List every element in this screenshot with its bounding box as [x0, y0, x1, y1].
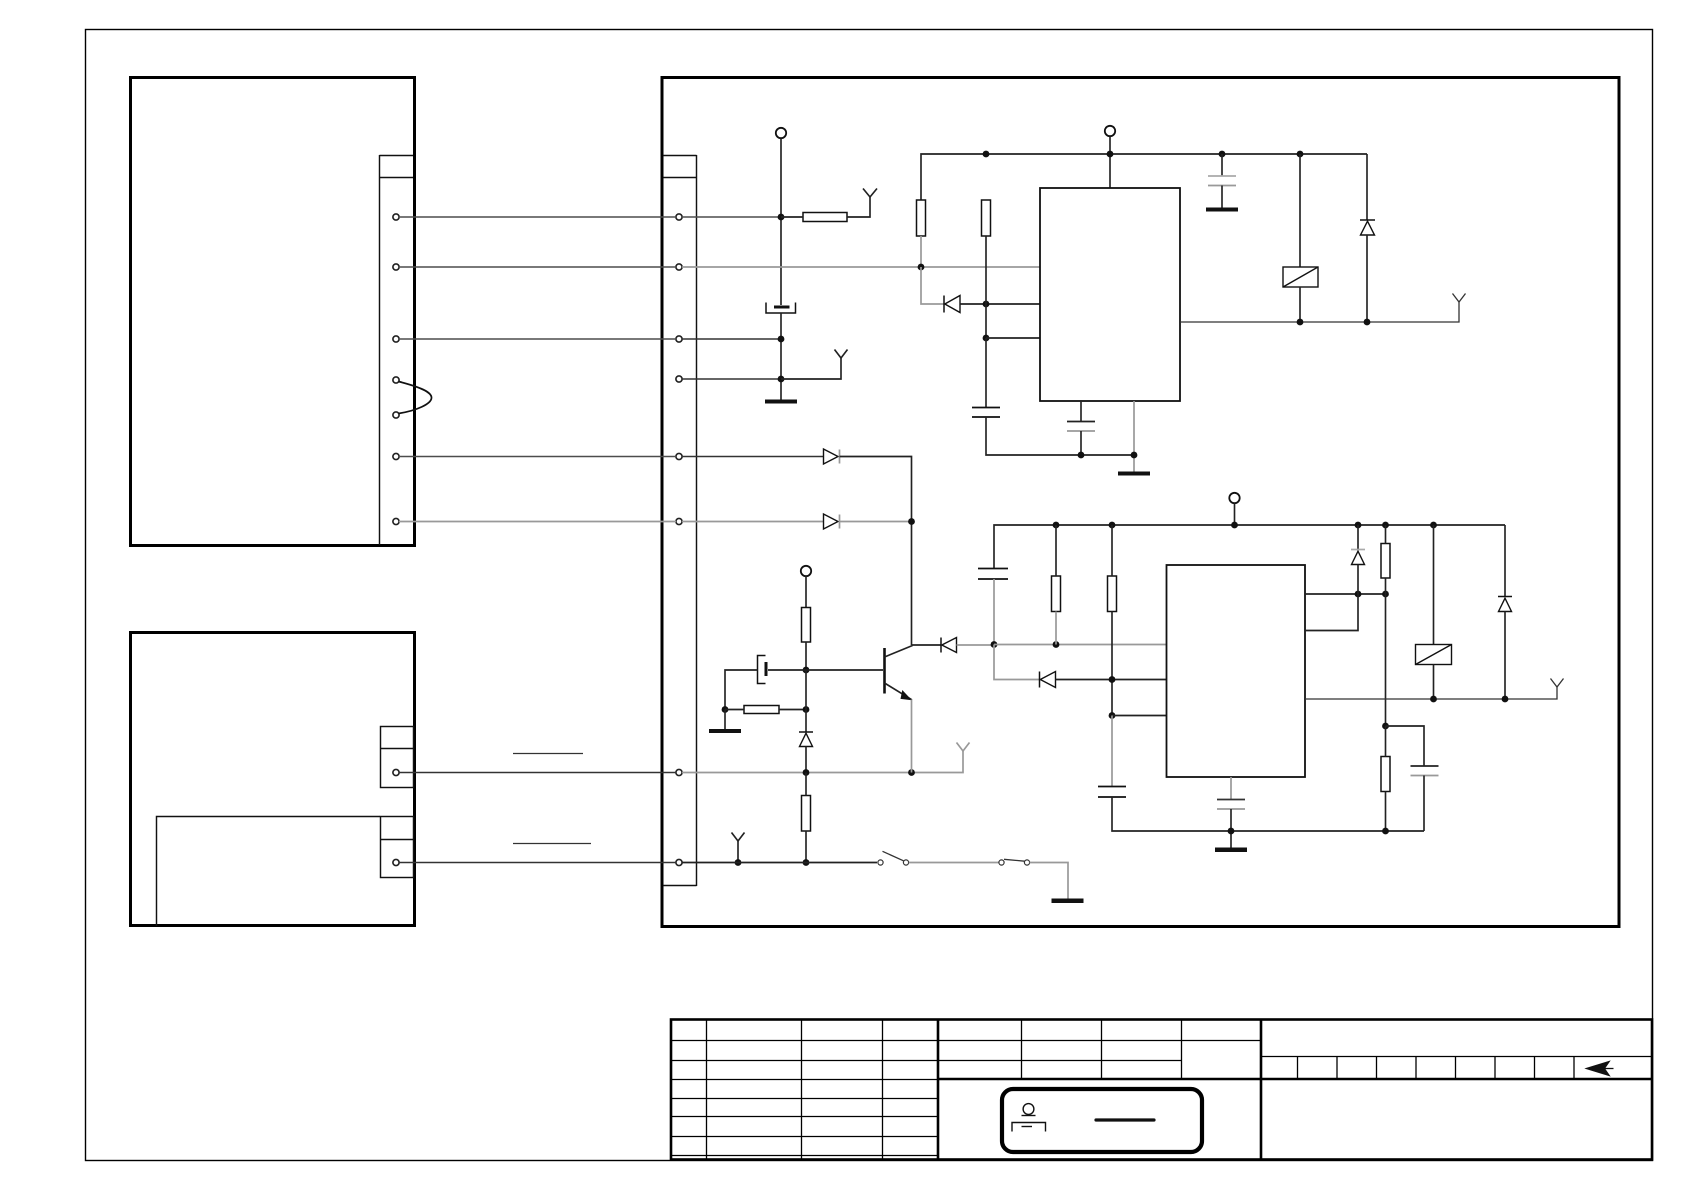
wire rail2 to R8	[1111, 525, 1113, 576]
node junction R9 bottom	[1382, 591, 1389, 598]
node junction RL2-row	[1430, 696, 1437, 703]
M1 pin 1	[393, 214, 399, 220]
node junction R7 bottom	[1053, 641, 1060, 648]
node junction bottom row	[803, 859, 810, 866]
antenna A5 stem	[737, 841, 739, 863]
node N1 junction	[918, 264, 925, 271]
wire D7 to out row	[1504, 612, 1506, 700]
strip pin P5	[676, 453, 682, 459]
node B junction	[803, 667, 810, 674]
title block outer frame	[671, 1020, 1652, 1160]
wire R4 to base node B	[805, 642, 807, 670]
wire RL1 to output row	[1299, 287, 1301, 322]
capacitor C4	[1208, 175, 1236, 177]
wire R7 to bus (gray)	[1055, 612, 1057, 645]
strip pin P3	[676, 336, 682, 342]
title block revision table verticals	[707, 1020, 883, 1159]
M1 connector strip	[380, 155, 414, 545]
resistor R6	[802, 796, 811, 832]
module box M2 (lower left)	[131, 633, 415, 926]
ground G6	[1215, 848, 1247, 853]
antenna A5	[732, 833, 745, 842]
title block info grid rows	[939, 1041, 1260, 1061]
diode D9 cathode bar	[839, 515, 841, 529]
node junction D5 row	[1109, 676, 1116, 683]
node junction D2-row	[1364, 319, 1371, 326]
wire R10 to bottom rail2	[1385, 792, 1387, 832]
wire W down to diode D5 (gray)	[994, 645, 1039, 680]
wire D3 to node W (gray)	[957, 644, 994, 646]
wire row 5 M1.7 to P6	[399, 521, 676, 523]
transistor Q1 emitter	[885, 683, 912, 700]
wire C2 to bottom rail	[986, 417, 1134, 455]
node V3 junction	[778, 376, 785, 383]
resistor R7	[1052, 576, 1061, 612]
wire P5 to diode D8	[682, 456, 824, 458]
M2 inner partition	[157, 817, 381, 927]
wire SW1 to SW2	[909, 862, 999, 864]
capacitor C3	[1067, 421, 1095, 423]
wire rail2 to D6	[1357, 525, 1359, 550]
wire R9 down through rows	[1385, 578, 1387, 726]
diode D1	[945, 296, 960, 313]
main schematic box	[662, 78, 1619, 927]
wire emitter down to row (gray)	[911, 700, 913, 773]
node junction D6 bottom	[1355, 591, 1362, 598]
capacitor C1 (polarized) plate	[774, 306, 790, 309]
main box connector strip	[663, 155, 697, 886]
strip pin P2	[676, 264, 682, 270]
node N2 junction	[983, 301, 990, 308]
wire D2 to output row	[1366, 235, 1368, 322]
diode D1 cathode bar	[943, 296, 945, 313]
resistor R8	[1108, 576, 1117, 612]
wire row 7 M2.B to P8	[399, 862, 676, 864]
switch SW1 throw	[903, 860, 908, 865]
wire T2 to IC1 top	[1109, 137, 1111, 189]
diode D8 cathode bar	[839, 450, 841, 464]
ground G3	[1206, 208, 1238, 212]
wire RL2 to out row	[1433, 665, 1435, 700]
wire D9 to collector line (gray)	[840, 521, 912, 523]
antenna A4	[957, 743, 970, 752]
node junction C8-rail	[1228, 828, 1235, 835]
switch SW2 throw	[1024, 860, 1029, 865]
title block revision table rows	[672, 1041, 937, 1156]
relay coil RL2	[1416, 645, 1452, 665]
wire row 3 M1.3 to P3	[399, 338, 676, 340]
diode D3 cathode bar	[940, 638, 942, 653]
wire rail to C4	[1221, 154, 1223, 176]
strip pin P1	[676, 214, 682, 220]
resistor R10	[1381, 757, 1390, 792]
wire D1 to IC1	[960, 303, 1040, 305]
diode D9	[824, 514, 839, 529]
wire P3 to node V2	[682, 338, 781, 340]
wire N3 to C2	[985, 338, 987, 408]
wire D5 to IC2	[1056, 679, 1167, 681]
wire R2 to node N1 (gray)	[920, 236, 922, 267]
wire P4 to node V3	[682, 378, 781, 380]
net label underline 2	[513, 843, 591, 845]
wire node to R10	[1385, 726, 1387, 757]
resistor R2	[917, 200, 926, 236]
switch SW1 pole	[878, 860, 883, 865]
capacitor C7	[1098, 787, 1126, 798]
wire row 2 M1.2 to P2	[399, 266, 676, 268]
rail junction at RL1	[1297, 151, 1304, 158]
terminal T2	[1105, 126, 1115, 136]
wire R8 down to nodes	[1111, 612, 1113, 716]
logo person icon shoulders	[1022, 1115, 1036, 1117]
wire D4 to row node	[805, 747, 807, 773]
M1 pin 3	[393, 336, 399, 342]
jumper wire loop between M1 pin4 and pin5	[399, 382, 432, 414]
logo badge frame	[1002, 1089, 1202, 1152]
wire row 6 M2.A to P7	[399, 772, 676, 774]
logo wordmark dash	[1096, 1118, 1154, 1121]
terminal T4	[1229, 493, 1239, 503]
relay coil RL1	[1283, 267, 1318, 287]
diode D4 cathode bar	[799, 731, 813, 733]
node junction row-emitter	[908, 769, 915, 776]
switch SW2 pole	[999, 860, 1004, 865]
M2 connector block B	[381, 817, 414, 878]
node W junction	[991, 641, 998, 648]
rail2 junction R7	[1053, 522, 1060, 529]
resistor R5	[744, 706, 779, 714]
node N3 junction	[983, 335, 990, 342]
wire IC1 bottom to ground G2 (gray)	[1133, 401, 1135, 472]
north arrow	[1586, 1061, 1610, 1075]
strip pin P6	[676, 518, 682, 524]
node junction D7-row	[1502, 696, 1509, 703]
strip pin P8	[676, 859, 682, 865]
transistor Q1 base bar	[883, 648, 886, 694]
capacitor C5 plate	[765, 662, 768, 676]
wire R1 to antenna A1	[847, 197, 870, 217]
net label underline 1	[513, 753, 583, 755]
north arrow tail	[1600, 1068, 1614, 1070]
diode D8	[824, 449, 839, 464]
ground G4	[709, 729, 741, 733]
wire SW2 to ground G5	[1030, 863, 1068, 900]
output row IC1 to antenna A3	[1180, 302, 1459, 322]
diode D7 cathode bar	[1498, 596, 1512, 598]
M2 connector block A	[381, 727, 414, 788]
capacitor C5 case	[758, 656, 766, 684]
wire C9 to bottom rail2	[1423, 776, 1425, 832]
logo desk dash	[1022, 1126, 1033, 1128]
wire stepped back to IC2	[1305, 594, 1358, 631]
M2 block A pin	[393, 769, 399, 775]
resistor R1	[803, 213, 847, 222]
strip pin P4	[676, 376, 682, 382]
ground G4 wire	[724, 710, 726, 730]
capacitor C1 case	[766, 303, 796, 314]
wire rail2 corner to diode D7	[1504, 525, 1506, 597]
wire C4 to ground G3	[1221, 186, 1223, 209]
M1 pin 4	[393, 377, 399, 383]
wire node to IC2 pin2	[1112, 715, 1167, 717]
wire IC1 bottom pin to C3	[1080, 401, 1082, 422]
capacitor C2	[972, 408, 1000, 418]
wire V3 to antenna A2	[781, 358, 841, 379]
resistor R3	[982, 200, 991, 236]
scale strip top line	[1262, 1056, 1652, 1058]
diode D7	[1499, 598, 1512, 611]
wire collector to diode D3	[912, 644, 942, 646]
node E junction	[722, 706, 729, 713]
M1 pin 7	[393, 518, 399, 524]
capacitor C9	[1411, 765, 1439, 767]
rail2 junction D6	[1355, 522, 1362, 529]
wire N3 to IC1	[986, 337, 1040, 339]
wire P6 to diode D9 (gray)	[682, 521, 824, 523]
node junction R10-rail	[1382, 828, 1389, 835]
wire row to switch SW1	[682, 862, 877, 864]
diode D2 cathode bar	[1360, 219, 1375, 221]
rail junction at T2	[1107, 151, 1114, 158]
node junction R10 top	[1382, 723, 1389, 730]
IC1	[1040, 188, 1180, 401]
M1 pin 5	[393, 412, 399, 418]
wire D8 to collector node	[840, 457, 912, 646]
rail junction at C4	[1219, 151, 1226, 158]
resistor R4	[802, 608, 811, 643]
wire R3 to N2	[985, 236, 987, 304]
diode D5 cathode bar	[1039, 672, 1041, 688]
wire node down to C7 (gray)	[1111, 716, 1113, 787]
resistor R9	[1381, 544, 1390, 579]
antenna A1	[863, 189, 877, 198]
node junction collector line	[908, 518, 915, 525]
node junction RL1-row	[1297, 319, 1304, 326]
wire T1 down to C1	[780, 139, 782, 306]
node V2 junction	[778, 336, 785, 343]
rail2 junction R9	[1382, 522, 1389, 529]
transistor Q1 emitter arrow	[901, 690, 912, 700]
IC2 right pin row to nodes	[1305, 593, 1386, 595]
diode D3	[942, 638, 957, 653]
power rail 1	[921, 154, 1367, 200]
M1 pin 2	[393, 264, 399, 270]
wire P1 to node V1	[682, 216, 781, 218]
title block heavy separator	[939, 1078, 1652, 1080]
M2 block B pin	[393, 859, 399, 865]
wire R5 to node F	[779, 709, 806, 711]
antenna A2	[835, 350, 848, 359]
wire row 1 M1.1 to P1	[399, 216, 676, 218]
wire C5 left down to node E	[725, 670, 758, 710]
wire N2 to N3	[985, 304, 987, 338]
wire P7 row to antenna A4 (gray)	[682, 751, 963, 773]
diode D4	[800, 733, 813, 746]
wire T3 to R4	[805, 576, 807, 608]
logo person icon head	[1023, 1104, 1034, 1115]
wire T4 to rail 2	[1234, 504, 1236, 526]
title block middle divider	[937, 1020, 940, 1159]
diode D2	[1361, 221, 1375, 235]
antenna A6	[1551, 679, 1564, 688]
wire R6 to bottom row	[805, 831, 807, 863]
power rail 2	[994, 525, 1505, 568]
node junction row2	[1109, 712, 1116, 719]
wire C5 to node B	[768, 669, 806, 671]
antenna A3	[1453, 294, 1466, 303]
wire C7 to bottom rail2	[1112, 797, 1424, 831]
wire row 4 M1.6 to P5	[399, 456, 676, 458]
wire rail2 to R7	[1055, 525, 1057, 576]
wire C6 to node W (gray)	[993, 579, 995, 645]
wire F to diode D4	[805, 710, 807, 733]
switch SW1 blade	[883, 851, 904, 861]
wire D6 to node	[1357, 565, 1359, 595]
node junction rail-G2	[1131, 452, 1138, 459]
title block right divider	[1260, 1020, 1263, 1159]
rail junction at R3	[983, 151, 990, 158]
capacitor C8	[1217, 799, 1245, 801]
M1 pin 6	[393, 453, 399, 459]
rail2 junction RL2	[1430, 522, 1437, 529]
diode D6 cathode bar	[1351, 549, 1365, 551]
logo desk bracket	[1012, 1123, 1046, 1132]
node F junction	[803, 706, 810, 713]
IC2	[1167, 565, 1306, 777]
node junction A5-row	[735, 859, 742, 866]
wire P2 to IC1 pin (gray bus)	[682, 266, 1040, 268]
module box M1 (upper left)	[131, 78, 415, 546]
diode D5	[1040, 672, 1055, 688]
transistor Q1 collector	[885, 646, 913, 658]
title block info grid verticals	[1022, 1020, 1182, 1079]
wire rail2 to relay RL2	[1433, 525, 1435, 645]
wire B to F	[805, 670, 807, 710]
node V1 junction	[778, 214, 785, 221]
node junction C3-rail	[1078, 452, 1085, 459]
strip pin P7	[676, 769, 682, 775]
wire rail2 to R9	[1385, 525, 1387, 544]
switch SW2 blade	[1004, 859, 1025, 861]
rail2 junction R8	[1109, 522, 1116, 529]
out row IC2 to antenna A6	[1305, 687, 1557, 699]
diode D6	[1352, 551, 1365, 564]
wire V1 to R1	[781, 216, 803, 218]
wire C1 to ground G1	[780, 313, 782, 401]
wire row to R6	[805, 773, 807, 796]
wire C8 to rail and ground G6	[1230, 809, 1232, 848]
capacitor C6	[978, 569, 1008, 580]
node junction row-D4	[803, 769, 810, 776]
wire E to R5	[725, 709, 744, 711]
wire rail corner to diode D2	[1366, 154, 1368, 220]
wire N1 down to diode D1 (gray)	[921, 267, 944, 304]
wire IC2 bottom to C8 (gray)	[1230, 777, 1232, 800]
gray bus W to IC2	[994, 644, 1167, 646]
transistor Q1 base wire	[806, 669, 883, 671]
terminal T3	[801, 566, 811, 576]
wire node to C9	[1386, 726, 1425, 766]
ground G5	[1052, 899, 1084, 904]
ground G2	[1118, 472, 1150, 476]
terminal T1	[776, 128, 786, 138]
scale strip cells	[1298, 1056, 1575, 1079]
relay coil RL1 wire from rail	[1299, 154, 1301, 267]
ground G1	[765, 400, 797, 404]
wire C3 to bottom rail	[1080, 431, 1082, 455]
rail2 junction T4	[1231, 522, 1238, 529]
